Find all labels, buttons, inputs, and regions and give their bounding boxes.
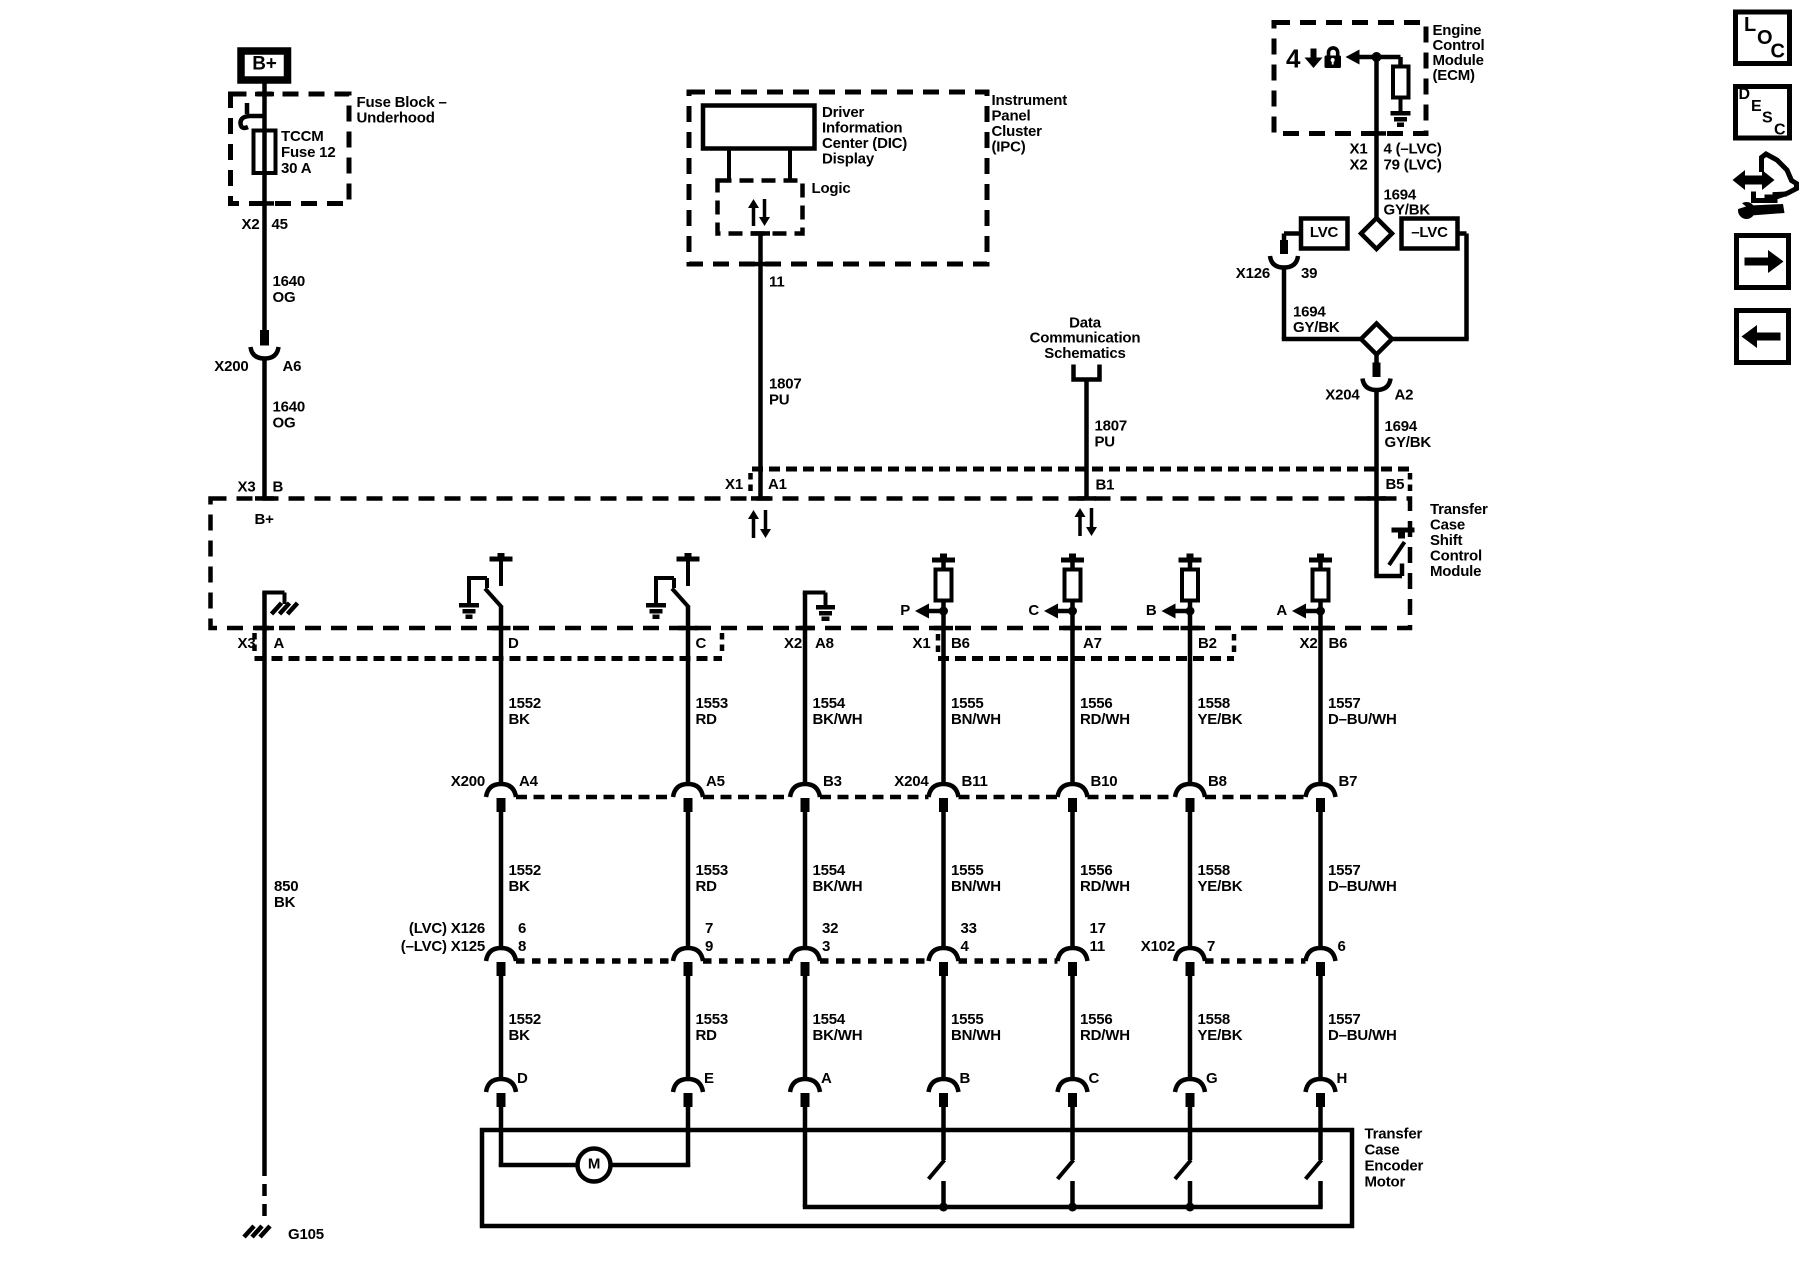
arrow A bbox=[1292, 604, 1306, 619]
wire splice to X204 bbox=[1374, 355, 1379, 366]
inline connector terminal bbox=[1058, 948, 1088, 976]
svg-text:X2: X2 bbox=[242, 216, 260, 233]
svg-text:32: 32 bbox=[822, 920, 838, 937]
arrow B bbox=[1162, 604, 1176, 619]
module switch column C blade bbox=[672, 589, 689, 608]
ECM internal ground bbox=[1391, 111, 1411, 116]
wire 1558 YE/BK seg1 bbox=[1188, 628, 1193, 785]
svg-text:Case: Case bbox=[1365, 1142, 1400, 1159]
svg-text:G: G bbox=[1206, 1070, 1217, 1087]
DIC display bbox=[703, 106, 815, 149]
wire 1557 D–BU/WH seg1 bbox=[1318, 628, 1323, 785]
svg-text:1554: 1554 bbox=[813, 1011, 846, 1028]
svg-text:H: H bbox=[1337, 1070, 1348, 1087]
wire 850 BK bbox=[262, 628, 267, 1164]
svg-text:1552: 1552 bbox=[509, 695, 542, 712]
wire 1554 BK/WH seg1 bbox=[803, 628, 808, 785]
wire data comm to module pin B1 bbox=[1084, 380, 1089, 499]
svg-text:1807: 1807 bbox=[769, 375, 802, 392]
svg-text:4: 4 bbox=[1286, 44, 1301, 74]
connector X3 dotted bracket bbox=[255, 656, 723, 661]
svg-text:1558: 1558 bbox=[1198, 862, 1231, 879]
svg-text:Control: Control bbox=[1430, 548, 1482, 565]
wire switch D to pin bbox=[499, 606, 504, 628]
svg-text:B+: B+ bbox=[255, 511, 275, 528]
connector row X200/X204 dashed line bbox=[516, 795, 673, 800]
svg-text:C: C bbox=[1774, 122, 1786, 139]
module internal chassis ground X3 A bbox=[262, 593, 297, 629]
transfer case shift control module box bbox=[211, 499, 1411, 629]
svg-text:X126: X126 bbox=[1236, 265, 1270, 282]
encoder motor pin C bbox=[1058, 1079, 1088, 1107]
svg-text:Underhood: Underhood bbox=[357, 110, 435, 127]
svg-text:(–LVC) X125: (–LVC) X125 bbox=[401, 938, 485, 955]
wire 1555 BN/WH seg3 bbox=[941, 975, 946, 1080]
svg-text:3: 3 bbox=[822, 938, 830, 955]
svg-text:BK/WH: BK/WH bbox=[813, 1027, 863, 1044]
svg-text:D: D bbox=[1739, 86, 1751, 103]
svg-text:BK/WH: BK/WH bbox=[813, 878, 863, 895]
ground G105 bbox=[244, 1226, 254, 1237]
svg-text:1556: 1556 bbox=[1080, 1011, 1113, 1028]
wire switch C to pin bbox=[686, 606, 691, 628]
svg-text:1640: 1640 bbox=[273, 398, 306, 415]
inline connector terminal bbox=[486, 784, 516, 812]
fuse TCCM Fuse 12 30A bbox=[254, 131, 276, 174]
wire 1552 BK seg2 bbox=[499, 811, 504, 949]
svg-text:4 (–LVC): 4 (–LVC) bbox=[1384, 140, 1442, 157]
wire LVC to X126 bbox=[1284, 231, 1301, 236]
svg-text:1553: 1553 bbox=[696, 695, 729, 712]
svg-text:39: 39 bbox=[1301, 265, 1317, 282]
svg-text:TCCM: TCCM bbox=[281, 128, 324, 145]
splice diamond upper bbox=[1361, 218, 1392, 249]
svg-text:X204: X204 bbox=[894, 773, 929, 790]
module A1 arrows bbox=[748, 510, 759, 519]
pin tick fuse block top bbox=[255, 92, 274, 97]
padlock icon bbox=[1325, 48, 1342, 68]
module switch column D blade bbox=[485, 589, 502, 608]
inline connector terminal bbox=[1306, 784, 1336, 812]
wire resistor B down bbox=[1188, 600, 1193, 628]
svg-text:1557: 1557 bbox=[1328, 862, 1361, 879]
svg-text:B: B bbox=[1146, 602, 1157, 619]
svg-text:Module: Module bbox=[1430, 563, 1481, 580]
inline connector terminal bbox=[929, 784, 959, 812]
svg-text:D–BU/WH: D–BU/WH bbox=[1328, 711, 1397, 728]
wire 1555 BN/WH seg1 bbox=[941, 628, 946, 785]
wire 1554 BK/WH seg2 bbox=[803, 811, 808, 949]
svg-text:7: 7 bbox=[1207, 938, 1215, 955]
svg-text:YE/BK: YE/BK bbox=[1198, 1027, 1243, 1044]
svg-text:33: 33 bbox=[961, 920, 977, 937]
module bottom pin ticks bbox=[255, 626, 274, 631]
LVC box bbox=[1301, 219, 1348, 249]
instrument panel cluster IPC box bbox=[689, 92, 987, 264]
svg-text:BK: BK bbox=[274, 894, 296, 911]
wire 1556 RD/WH seg1 bbox=[1070, 628, 1075, 785]
svg-text:1555: 1555 bbox=[951, 862, 984, 879]
svg-text:X2: X2 bbox=[1300, 635, 1318, 652]
wire IPC to module pin A1 bbox=[758, 234, 763, 499]
svg-text:B10: B10 bbox=[1091, 773, 1118, 790]
svg-text:1553: 1553 bbox=[696, 862, 729, 879]
module switch column C contact bbox=[677, 553, 700, 586]
inline connector terminal bbox=[1175, 784, 1205, 812]
svg-text:X3: X3 bbox=[238, 478, 256, 495]
svg-text:Case: Case bbox=[1430, 517, 1465, 534]
svg-text:B6: B6 bbox=[1329, 635, 1348, 652]
svg-text:L: L bbox=[1744, 14, 1756, 36]
pin tick ECM bottom bbox=[1367, 131, 1386, 136]
wire X200 to module bbox=[262, 359, 267, 499]
wire ECM to LVC diamond bbox=[1374, 57, 1379, 219]
svg-text:S: S bbox=[1762, 110, 1773, 127]
svg-text:Information: Information bbox=[822, 119, 902, 136]
wire 1558 YE/BK seg3 bbox=[1188, 975, 1193, 1080]
svg-text:B8: B8 bbox=[1208, 773, 1227, 790]
dotted tick X1 bbox=[748, 473, 753, 496]
svg-text:Fuse 12: Fuse 12 bbox=[281, 144, 335, 161]
svg-text:A1: A1 bbox=[768, 476, 787, 493]
svg-text:Logic: Logic bbox=[812, 180, 851, 197]
svg-text:M: M bbox=[588, 1156, 600, 1173]
data comm bracket bbox=[1074, 365, 1100, 380]
connector X1 dotted line bbox=[752, 467, 1410, 472]
pin tick A1 bbox=[751, 496, 770, 501]
wire B+ to fuse block bbox=[262, 80, 267, 97]
svg-text:D–BU/WH: D–BU/WH bbox=[1328, 878, 1397, 895]
svg-text:4: 4 bbox=[961, 938, 970, 955]
connector X126 pin 39 bbox=[1270, 240, 1298, 268]
logic box bbox=[718, 181, 803, 234]
svg-text:1558: 1558 bbox=[1198, 695, 1231, 712]
icon box LOC bbox=[1736, 12, 1790, 64]
arrow P bbox=[915, 604, 929, 619]
svg-text:YE/BK: YE/BK bbox=[1198, 878, 1243, 895]
svg-text:Transfer: Transfer bbox=[1430, 501, 1488, 518]
svg-text:17: 17 bbox=[1090, 920, 1106, 937]
svg-text:D–BU/WH: D–BU/WH bbox=[1328, 1027, 1397, 1044]
svg-text:Cluster: Cluster bbox=[992, 123, 1043, 140]
svg-text:A7: A7 bbox=[1083, 635, 1102, 652]
inline connector terminal bbox=[1175, 948, 1205, 976]
dotted tick right end bbox=[1408, 473, 1413, 496]
wire 1552 BK seg3 bbox=[499, 975, 504, 1080]
svg-text:OG: OG bbox=[273, 414, 296, 431]
svg-text:Transfer: Transfer bbox=[1365, 1126, 1423, 1143]
inline connector terminal bbox=[673, 784, 703, 812]
transfer case encoder motor box bbox=[482, 1130, 1352, 1226]
module B5 switch bbox=[1374, 499, 1414, 577]
module B1 arrows bbox=[1075, 508, 1086, 517]
svg-text:X1: X1 bbox=[725, 476, 743, 493]
svg-text:X3: X3 bbox=[238, 635, 256, 652]
inline connector terminal bbox=[673, 948, 703, 976]
wire 1553 RD seg2 bbox=[686, 811, 691, 949]
svg-text:1556: 1556 bbox=[1080, 862, 1113, 879]
encoder switch H bbox=[1306, 1106, 1322, 1207]
junction ECM bbox=[1372, 52, 1382, 62]
svg-text:B2: B2 bbox=[1198, 635, 1217, 652]
wire 1557 D–BU/WH seg3 bbox=[1318, 975, 1323, 1080]
encoder motor pin E bbox=[673, 1079, 703, 1107]
svg-text:9: 9 bbox=[705, 938, 713, 955]
svg-text:A: A bbox=[274, 635, 285, 652]
svg-text:79 (LVC): 79 (LVC) bbox=[1384, 156, 1442, 173]
svg-text:PU: PU bbox=[1095, 433, 1115, 450]
svg-text:X200: X200 bbox=[451, 773, 485, 790]
svg-text:1555: 1555 bbox=[951, 1011, 984, 1028]
encoder motor pin D bbox=[486, 1079, 516, 1107]
module resistor column C bbox=[1061, 554, 1084, 601]
svg-text:B11: B11 bbox=[962, 773, 988, 790]
svg-text:BN/WH: BN/WH bbox=[951, 1027, 1001, 1044]
encoder switch G bbox=[1175, 1106, 1191, 1207]
svg-text:–LVC: –LVC bbox=[1411, 224, 1448, 241]
connector X1 dotted bracket bbox=[938, 656, 1234, 661]
wire 1558 YE/BK seg2 bbox=[1188, 811, 1193, 949]
svg-text:1557: 1557 bbox=[1328, 1011, 1361, 1028]
svg-text:1553: 1553 bbox=[696, 1011, 729, 1028]
svg-text:(LVC) X126: (LVC) X126 bbox=[409, 920, 485, 937]
junction C bbox=[1068, 607, 1077, 616]
wire X126 down to splice bbox=[1282, 267, 1287, 339]
wire 1557 D–BU/WH seg2 bbox=[1318, 811, 1323, 949]
encoder motor pin H bbox=[1306, 1079, 1336, 1107]
splice diamond lower bbox=[1361, 324, 1392, 355]
svg-text:C: C bbox=[1028, 602, 1039, 619]
wire resistor to ground bbox=[1399, 98, 1403, 113]
pin tick IPC box bottom bbox=[751, 262, 770, 267]
svg-text:RD: RD bbox=[696, 878, 718, 895]
svg-text:Center (DIC): Center (DIC) bbox=[822, 135, 907, 152]
inline connector terminal bbox=[790, 784, 820, 812]
svg-text:1556: 1556 bbox=[1080, 695, 1113, 712]
fuse clip hook bbox=[240, 103, 266, 128]
svg-text:1694: 1694 bbox=[1293, 303, 1326, 320]
module resistor column B bbox=[1179, 554, 1202, 601]
inline connector terminal bbox=[929, 948, 959, 976]
svg-text:A4: A4 bbox=[519, 773, 539, 790]
battery positive B+ bbox=[241, 51, 288, 80]
svg-text:1554: 1554 bbox=[813, 862, 846, 879]
junction encoder G bbox=[1186, 1203, 1195, 1212]
wire pin D to motor bbox=[499, 1106, 504, 1167]
svg-text:1640: 1640 bbox=[273, 273, 306, 290]
ECM resistor bbox=[1393, 67, 1409, 98]
svg-text:A6: A6 bbox=[283, 358, 302, 375]
svg-text:Shift: Shift bbox=[1430, 532, 1463, 549]
wire 1556 RD/WH seg2 bbox=[1070, 811, 1075, 949]
svg-text:C: C bbox=[1771, 41, 1785, 63]
module switch column C ground branch bbox=[646, 578, 674, 619]
svg-text:RD/WH: RD/WH bbox=[1080, 878, 1130, 895]
junction A bbox=[1316, 607, 1325, 616]
motor M bbox=[578, 1149, 611, 1182]
ECM pull resistor branch wire bbox=[1398, 57, 1403, 68]
svg-text:1555: 1555 bbox=[951, 695, 984, 712]
svg-text:11: 11 bbox=[769, 273, 784, 290]
svg-text:A2: A2 bbox=[1395, 386, 1414, 403]
svg-text:B+: B+ bbox=[252, 53, 277, 74]
svg-text:1694: 1694 bbox=[1385, 418, 1418, 435]
svg-text:30 A: 30 A bbox=[281, 160, 312, 177]
logic up arrow bbox=[748, 199, 759, 208]
encoder motor pin A bbox=[790, 1079, 820, 1107]
inline connector terminal bbox=[1306, 948, 1336, 976]
icon vehicle swap + wrench bbox=[1733, 154, 1797, 219]
svg-text:B7: B7 bbox=[1339, 773, 1358, 790]
arrow C bbox=[1044, 604, 1058, 619]
svg-text:(IPC): (IPC) bbox=[992, 138, 1026, 155]
svg-text:B3: B3 bbox=[823, 773, 842, 790]
svg-text:Fuse Block –: Fuse Block – bbox=[357, 94, 447, 111]
svg-text:E: E bbox=[1751, 98, 1762, 115]
module switch column D contact bbox=[490, 553, 513, 586]
svg-text:Schematics: Schematics bbox=[1044, 345, 1125, 362]
svg-text:1558: 1558 bbox=[1198, 1011, 1231, 1028]
svg-text:Display: Display bbox=[822, 150, 875, 167]
svg-text:D: D bbox=[517, 1070, 528, 1087]
encoder switch C bbox=[1058, 1106, 1074, 1207]
svg-text:6: 6 bbox=[518, 920, 526, 937]
icon box DESC bbox=[1736, 86, 1790, 139]
engine control module ECM box bbox=[1274, 23, 1426, 134]
svg-text:A5: A5 bbox=[706, 773, 725, 790]
svg-text:OG: OG bbox=[273, 289, 296, 306]
inline connector terminal bbox=[1058, 784, 1088, 812]
svg-text:RD: RD bbox=[696, 711, 718, 728]
svg-text:GY/BK: GY/BK bbox=[1384, 201, 1431, 218]
svg-text:B: B bbox=[273, 478, 284, 495]
svg-text:A: A bbox=[1276, 602, 1287, 619]
icon box arrow left bbox=[1737, 311, 1789, 363]
pin tick B1 bbox=[1077, 496, 1096, 501]
module resistor column A bbox=[1309, 554, 1332, 601]
svg-text:X1: X1 bbox=[1350, 140, 1368, 157]
svg-text:8: 8 bbox=[518, 938, 526, 955]
wire 1555 BN/WH seg2 bbox=[941, 811, 946, 949]
module resistor column P bbox=[932, 554, 955, 601]
encoder motor pin B bbox=[929, 1079, 959, 1107]
wire through fuse bbox=[262, 97, 267, 330]
connector row X125/X102 dotted line bbox=[516, 958, 673, 964]
svg-text:X2: X2 bbox=[1350, 156, 1368, 173]
junction B bbox=[1186, 607, 1195, 616]
logic down arrow bbox=[759, 217, 770, 226]
wire 1553 RD seg1 bbox=[686, 628, 691, 785]
svg-text:B: B bbox=[960, 1070, 971, 1087]
pin tick fuse block bottom bbox=[255, 201, 274, 206]
svg-text:E: E bbox=[704, 1070, 714, 1087]
svg-text:P: P bbox=[900, 602, 910, 619]
svg-text:BK: BK bbox=[509, 878, 531, 895]
svg-text:B6: B6 bbox=[951, 635, 970, 652]
svg-text:11: 11 bbox=[1090, 938, 1105, 955]
svg-text:1557: 1557 bbox=[1328, 695, 1361, 712]
svg-text:A8: A8 bbox=[815, 635, 834, 652]
svg-text:Communication: Communication bbox=[1030, 329, 1141, 346]
svg-text:X102: X102 bbox=[1141, 938, 1175, 955]
pin tick B5 bbox=[1367, 496, 1386, 501]
wire X204 to module pin B5 bbox=[1374, 390, 1379, 499]
svg-text:PU: PU bbox=[769, 391, 789, 408]
module A8 ground branch bbox=[803, 593, 835, 629]
pin tick logic bottom bbox=[751, 231, 770, 236]
svg-text:BK: BK bbox=[509, 1027, 531, 1044]
svg-text:BN/WH: BN/WH bbox=[951, 878, 1001, 895]
svg-text:GY/BK: GY/BK bbox=[1385, 434, 1432, 451]
wire 1554 BK/WH seg3 bbox=[803, 975, 808, 1080]
svg-text:RD: RD bbox=[696, 1027, 718, 1044]
svg-text:7: 7 bbox=[705, 920, 713, 937]
svg-text:45: 45 bbox=[272, 216, 288, 233]
svg-text:1807: 1807 bbox=[1095, 417, 1128, 434]
wire resistor C down bbox=[1070, 600, 1075, 628]
svg-text:C: C bbox=[1089, 1070, 1100, 1087]
wire resistor P down bbox=[941, 600, 946, 628]
svg-text:Instrument: Instrument bbox=[992, 92, 1068, 109]
junction P bbox=[939, 607, 948, 616]
svg-text:B5: B5 bbox=[1386, 476, 1405, 493]
wire 1553 RD seg3 bbox=[686, 975, 691, 1080]
4WD low indicator icon bbox=[1286, 44, 1323, 74]
wire pin A to bus bbox=[803, 1106, 808, 1207]
svg-text:GY/BK: GY/BK bbox=[1293, 319, 1340, 336]
inline connector terminal bbox=[486, 948, 516, 976]
encoder switch B bbox=[929, 1106, 945, 1207]
svg-text:YE/BK: YE/BK bbox=[1198, 711, 1243, 728]
svg-text:X1: X1 bbox=[913, 635, 931, 652]
svg-text:850: 850 bbox=[274, 878, 298, 895]
svg-text:RD/WH: RD/WH bbox=[1080, 711, 1130, 728]
connector X200 pin A6 bbox=[251, 330, 279, 359]
icon box arrow right bbox=[1737, 236, 1789, 288]
svg-text:X204: X204 bbox=[1325, 386, 1360, 403]
svg-text:Encoder: Encoder bbox=[1365, 1158, 1424, 1175]
inline connector terminal bbox=[790, 948, 820, 976]
wire DIC to logic right bbox=[788, 149, 792, 182]
svg-text:(ECM): (ECM) bbox=[1433, 67, 1476, 84]
svg-text:1552: 1552 bbox=[509, 1011, 542, 1028]
svg-text:A: A bbox=[821, 1070, 832, 1087]
wire -LVC right branch bbox=[1458, 231, 1467, 236]
-LVC box bbox=[1402, 219, 1458, 249]
svg-text:RD/WH: RD/WH bbox=[1080, 1027, 1130, 1044]
svg-text:D: D bbox=[508, 635, 519, 652]
svg-text:BK/WH: BK/WH bbox=[813, 711, 863, 728]
svg-text:B1: B1 bbox=[1096, 476, 1115, 493]
svg-text:G105: G105 bbox=[288, 1226, 324, 1243]
fuse block underhood box bbox=[231, 94, 350, 204]
wire 1552 BK seg1 bbox=[499, 628, 504, 785]
svg-text:Motor: Motor bbox=[1365, 1174, 1406, 1191]
svg-text:BK: BK bbox=[509, 711, 531, 728]
svg-text:BN/WH: BN/WH bbox=[951, 711, 1001, 728]
svg-text:C: C bbox=[696, 635, 707, 652]
encoder bus bbox=[803, 1205, 1323, 1210]
svg-text:6: 6 bbox=[1338, 938, 1346, 955]
svg-text:X200: X200 bbox=[214, 358, 248, 375]
svg-text:1554: 1554 bbox=[813, 695, 846, 712]
encoder motor pin G bbox=[1175, 1079, 1205, 1107]
junction encoder C bbox=[1068, 1203, 1077, 1212]
module switch column D ground branch bbox=[459, 578, 487, 619]
svg-text:1552: 1552 bbox=[509, 862, 542, 879]
svg-text:X2: X2 bbox=[784, 635, 802, 652]
wire DIC to logic left bbox=[727, 149, 731, 182]
